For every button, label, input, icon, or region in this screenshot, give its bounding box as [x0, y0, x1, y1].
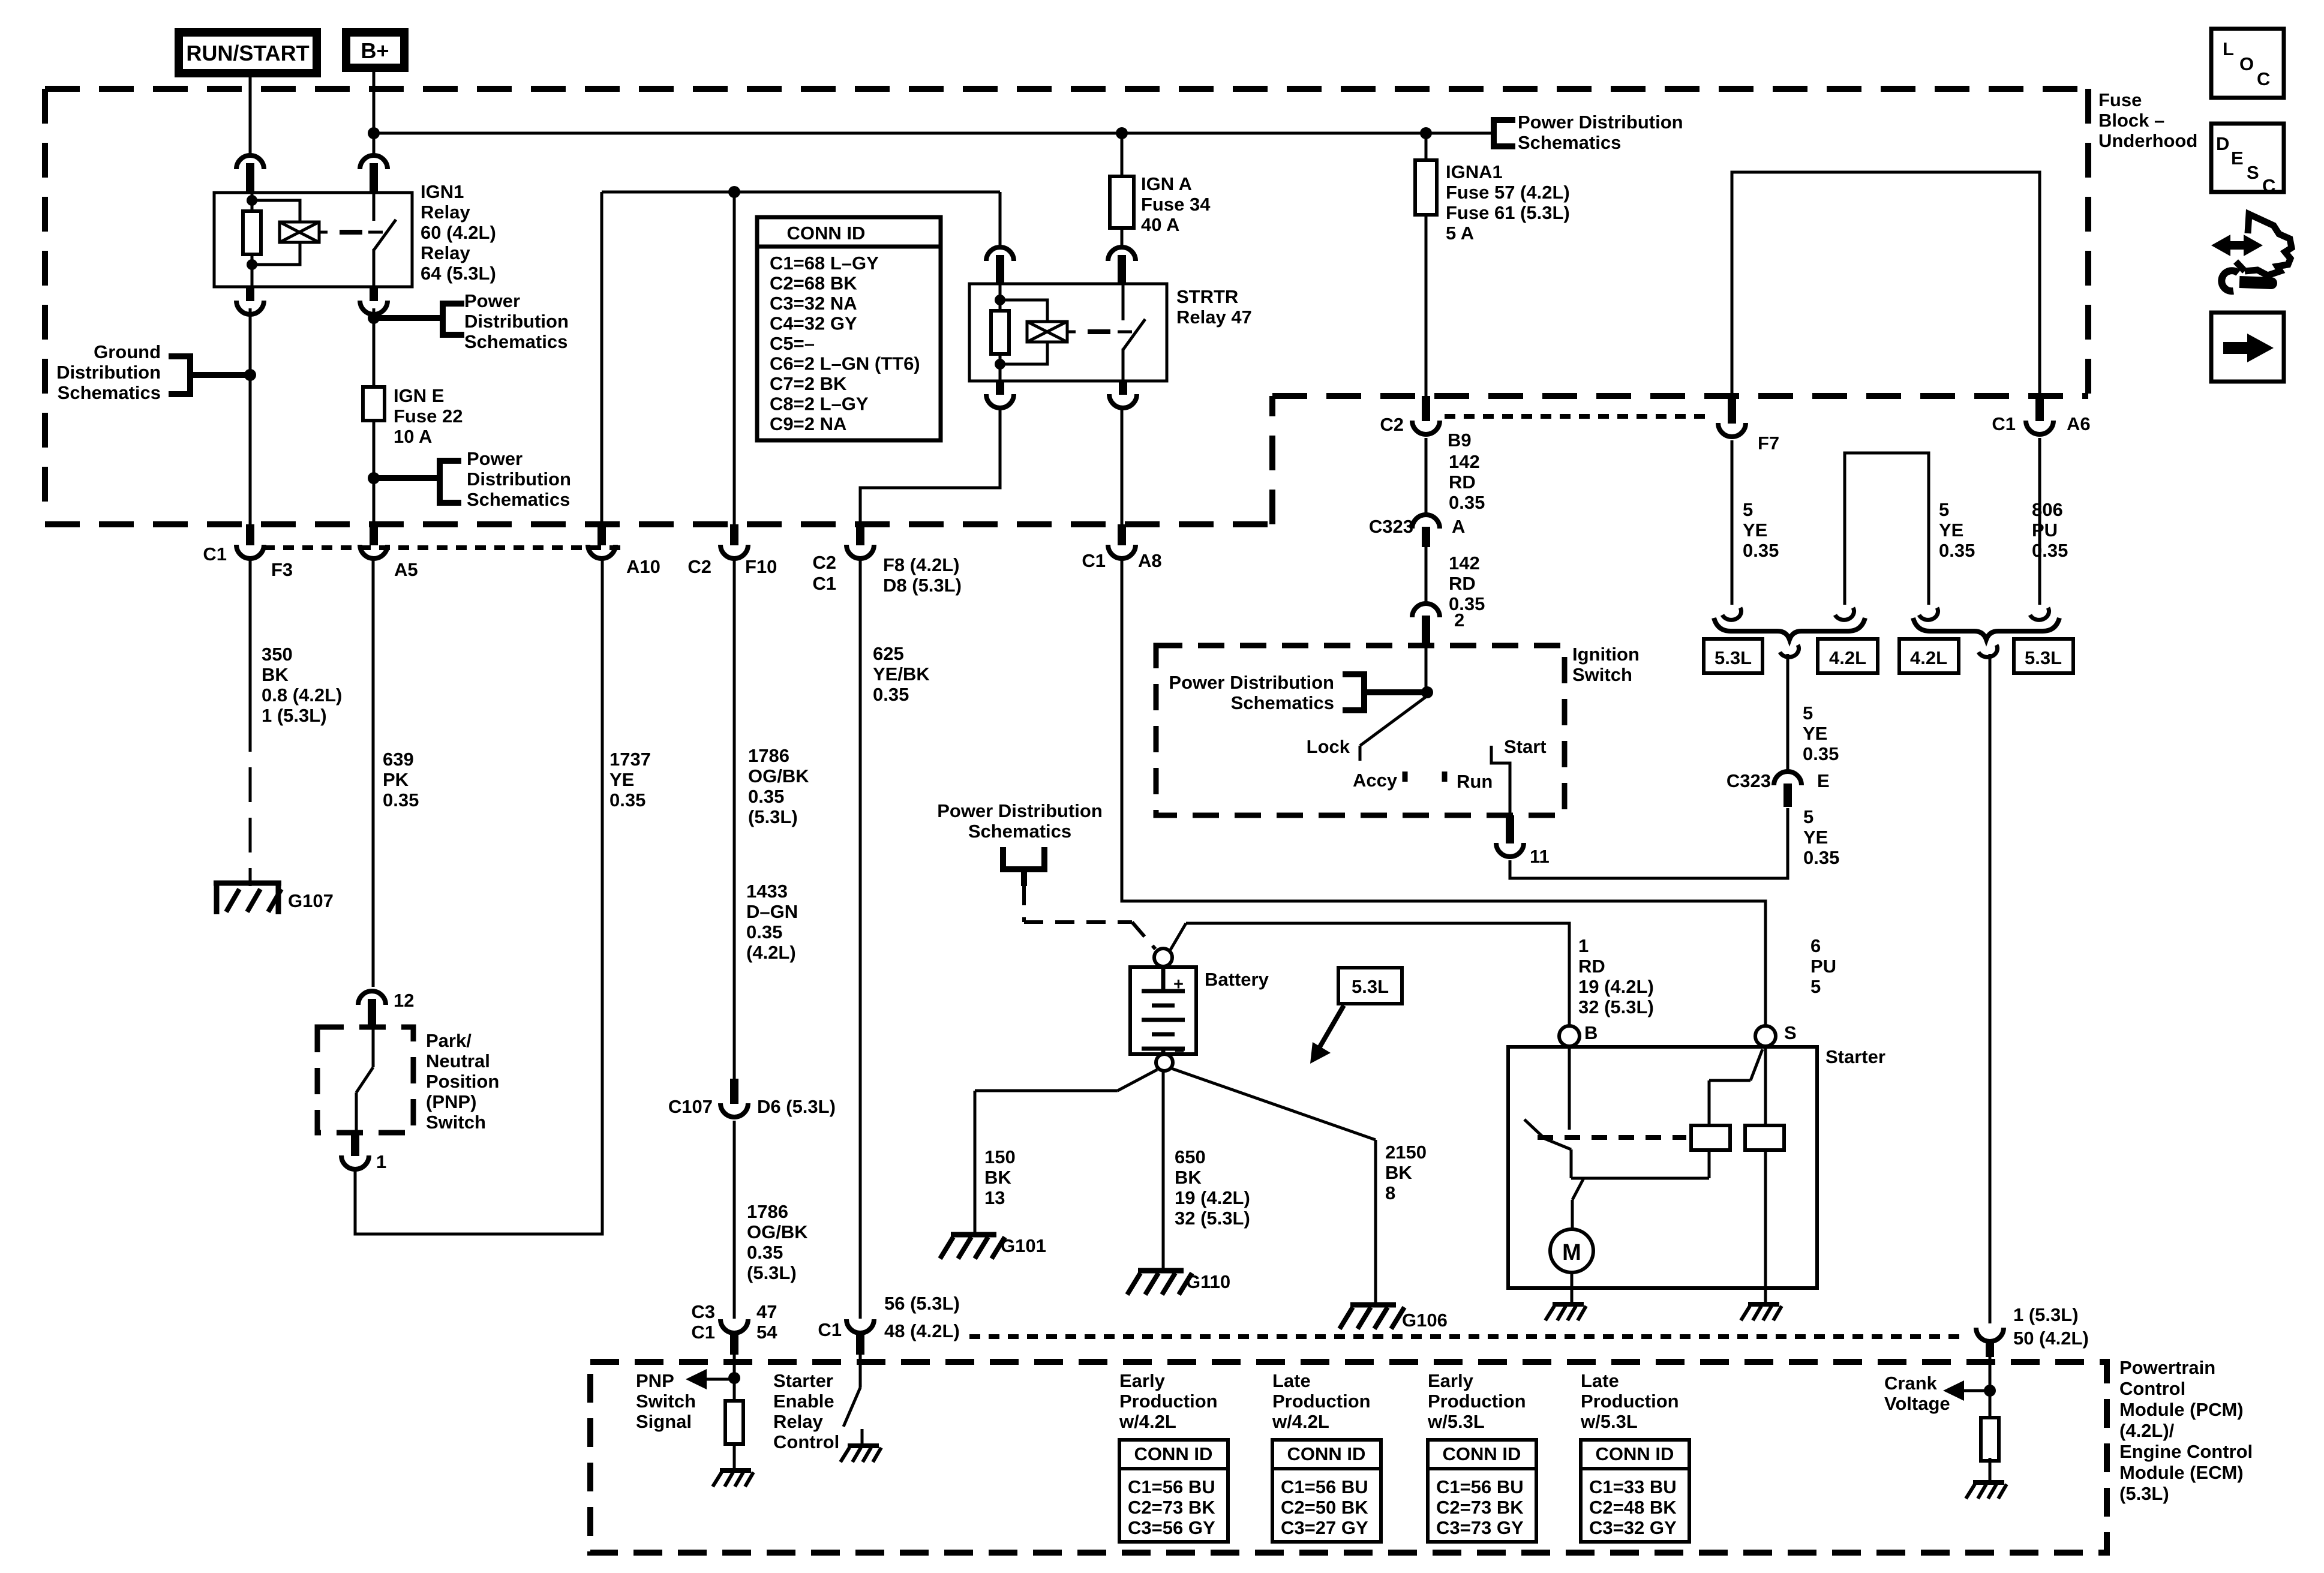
svg-text:A8: A8	[1138, 550, 1162, 571]
svg-text:Power: Power	[464, 290, 520, 311]
svg-text:B+: B+	[361, 38, 389, 63]
CONN ID table late production 4.2L	[1272, 1370, 1381, 1542]
svg-text:0.35: 0.35	[873, 684, 909, 705]
svg-text:G107: G107	[288, 890, 334, 911]
svg-text:PNP: PNP	[636, 1370, 674, 1391]
wire S to hold-in winding	[1764, 1046, 1767, 1125]
svg-text:YE/BK: YE/BK	[873, 664, 930, 685]
svg-text:Fuse: Fuse	[2098, 89, 2142, 110]
svg-text:C2=73 BK: C2=73 BK	[1436, 1497, 1524, 1518]
svg-text:Production: Production	[1581, 1391, 1679, 1412]
connector C1 56/48	[818, 1293, 959, 1355]
svg-text:Power Distribution: Power Distribution	[937, 800, 1103, 821]
ignition switch start contact	[1491, 736, 1547, 815]
wire hold-in winding to ground	[1764, 1150, 1767, 1303]
hook at crank brace (right)	[1978, 645, 1998, 657]
svg-text:C1: C1	[818, 1319, 842, 1340]
wire B into contact	[1568, 1046, 1571, 1130]
fuse IGNA1 label	[1446, 161, 1570, 244]
svg-text:Relay: Relay	[421, 202, 470, 223]
svg-text:C1: C1	[1992, 413, 2016, 434]
svg-text:10 A: 10 A	[394, 426, 432, 447]
node A5 wire at power reference	[368, 312, 380, 324]
svg-text:F8 (4.2L): F8 (4.2L)	[883, 554, 959, 575]
svg-text:C3=56 GY: C3=56 GY	[1128, 1517, 1215, 1538]
svg-text:Early: Early	[1119, 1370, 1166, 1391]
svg-text:F3: F3	[271, 559, 293, 580]
svg-text:Module (ECM): Module (ECM)	[2119, 1462, 2244, 1483]
wire S to pull-in winding	[1709, 1049, 1762, 1125]
starter motor M	[1550, 1229, 1593, 1272]
svg-text:19 (4.2L): 19 (4.2L)	[1175, 1187, 1250, 1208]
svg-text:0.35: 0.35	[383, 789, 419, 810]
svg-text:Enable: Enable	[773, 1391, 834, 1412]
PCM ECM dashed box	[590, 1362, 2107, 1553]
PCM PNP pull resistor	[725, 1401, 743, 1444]
svg-text:Schematics: Schematics	[968, 821, 1071, 842]
svg-text:D6 (5.3L): D6 (5.3L)	[757, 1096, 836, 1117]
brace right engine group	[1913, 618, 2059, 640]
connector pin out of IGN1 relay (switch)	[360, 287, 388, 314]
PNP switch label	[426, 1030, 499, 1133]
svg-text:IGN A: IGN A	[1141, 173, 1192, 194]
svg-text:50 (4.2L): 50 (4.2L)	[2013, 1328, 2089, 1349]
svg-text:Control: Control	[773, 1431, 839, 1452]
svg-text:Switch: Switch	[426, 1112, 486, 1133]
svg-text:Start: Start	[1504, 736, 1547, 757]
svg-text:C2=50 BK: C2=50 BK	[1281, 1497, 1368, 1518]
svg-text:G101: G101	[1001, 1235, 1046, 1256]
node B+ bus at IGN A fuse	[1116, 127, 1128, 139]
svg-text:YE: YE	[609, 769, 634, 790]
svg-text:0.35: 0.35	[1743, 540, 1779, 561]
svg-text:M: M	[1562, 1240, 1581, 1265]
wire 5 YE label (above C323 E)	[1803, 703, 1839, 764]
svg-text:Production: Production	[1272, 1391, 1371, 1412]
wire 5 YE label (F7)	[1743, 499, 1779, 561]
svg-text:Distribution: Distribution	[464, 311, 569, 332]
brace left engine group	[1714, 618, 1865, 640]
CONN ID table late production 5.3L	[1580, 1370, 1689, 1542]
svg-text:Power Distribution: Power Distribution	[1169, 672, 1334, 693]
svg-text:C1: C1	[203, 544, 227, 565]
wire STRTR switch out through A8 to starter S	[1121, 407, 1124, 524]
connector pin into STRTR relay (coil)	[986, 247, 1014, 284]
svg-text:Schematics: Schematics	[58, 382, 161, 403]
svg-text:CONN ID: CONN ID	[1443, 1443, 1521, 1464]
svg-text:F7: F7	[1758, 433, 1779, 454]
svg-text:Control: Control	[2119, 1378, 2185, 1399]
svg-text:YE: YE	[1803, 723, 1827, 744]
crank voltage arrow	[1884, 1373, 1990, 1414]
svg-text:1 (5.3L): 1 (5.3L)	[2013, 1304, 2079, 1325]
svg-text:PU: PU	[1810, 956, 1836, 977]
PCM connector row dots (bottom)	[969, 1334, 1963, 1339]
fuse IGN A label	[1141, 173, 1211, 235]
svg-text:w/5.3L: w/5.3L	[1580, 1411, 1638, 1432]
svg-text:Ignition: Ignition	[1572, 644, 1640, 665]
svg-text:5.3L: 5.3L	[2025, 647, 2062, 668]
svg-text:Lock: Lock	[1307, 736, 1350, 757]
svg-text:0.8 (4.2L): 0.8 (4.2L)	[262, 685, 342, 706]
svg-text:625: 625	[873, 643, 904, 664]
PCM module label	[2119, 1357, 2253, 1504]
svg-text:5.3L: 5.3L	[1352, 976, 1389, 997]
svg-text:Relay: Relay	[773, 1411, 823, 1432]
svg-text:6: 6	[1810, 935, 1821, 956]
svg-text:1 (5.3L): 1 (5.3L)	[262, 705, 327, 726]
svg-text:1433: 1433	[746, 881, 788, 902]
terminal B	[1559, 1022, 1598, 1046]
wire dashed battery feed	[1024, 886, 1155, 949]
svg-text:C2: C2	[687, 556, 711, 577]
svg-text:5: 5	[1743, 499, 1753, 520]
svg-text:w/4.2L: w/4.2L	[1119, 1411, 1176, 1432]
svg-text:Module (PCM): Module (PCM)	[2119, 1399, 2244, 1420]
ground starter solenoid	[1741, 1304, 1782, 1320]
svg-text:150: 150	[984, 1146, 1016, 1167]
svg-text:54: 54	[756, 1322, 777, 1343]
svg-text:19 (4.2L): 19 (4.2L)	[1578, 976, 1654, 997]
svg-text:C3=27 GY: C3=27 GY	[1281, 1517, 1368, 1538]
svg-text:C2=48 BK: C2=48 BK	[1589, 1497, 1677, 1518]
svg-text:Schematics: Schematics	[1518, 132, 1621, 153]
svg-text:C: C	[2257, 68, 2270, 89]
diagnostic wrench icon	[2211, 214, 2292, 291]
svg-text:Distribution: Distribution	[467, 469, 571, 490]
connector A5	[360, 524, 418, 580]
connector pin into IGN1 relay (switch)	[360, 155, 388, 193]
svg-text:1: 1	[1578, 935, 1589, 956]
svg-text:OG/BK: OG/BK	[748, 766, 809, 786]
svg-text:5: 5	[1803, 703, 1813, 724]
wire IGN1 coil out to C1 F3	[249, 308, 252, 524]
wire F8 to PCM C1	[859, 558, 862, 1319]
svg-text:12: 12	[394, 990, 414, 1011]
power distribution schematics reference (top right)	[1494, 112, 1683, 153]
wire 2150 BK label	[1385, 1142, 1427, 1203]
svg-text:C323: C323	[1727, 770, 1771, 791]
starter solenoid plunger dash link	[1538, 1135, 1686, 1140]
node ignition switch wiper	[1421, 686, 1433, 698]
engine tag 5.3L (left)	[1704, 639, 1762, 673]
wire C107 to PCM C3/C1	[733, 1121, 736, 1319]
wire PNP switch return loop	[355, 558, 602, 1234]
wire 150 BK label	[984, 1146, 1016, 1208]
connector C323 A	[1369, 515, 1466, 547]
connector 1 at PNP switch	[341, 1133, 386, 1172]
svg-text:PK: PK	[383, 769, 409, 790]
svg-text:Early: Early	[1428, 1370, 1474, 1391]
svg-text:Voltage: Voltage	[1884, 1393, 1950, 1414]
wire PNP switch signal input	[733, 1355, 736, 1401]
svg-text:Fuse 57 (4.2L): Fuse 57 (4.2L)	[1446, 182, 1570, 203]
svg-text:Accy: Accy	[1353, 770, 1398, 791]
wire 1737 YE label	[609, 749, 651, 810]
svg-text:C1: C1	[691, 1322, 715, 1343]
wire 4.2L jumper between braces	[1845, 453, 1929, 605]
engine tag 4.2L (right)	[1899, 639, 1959, 673]
svg-text:Late: Late	[1581, 1370, 1619, 1391]
connector 2 at ignition switch	[1412, 604, 1464, 646]
svg-text:1786: 1786	[747, 1201, 788, 1222]
ground G110	[1127, 1271, 1230, 1295]
svg-text:Ground: Ground	[94, 341, 161, 362]
svg-text:64 (5.3L): 64 (5.3L)	[421, 263, 496, 284]
relay IGN1 coil	[252, 200, 328, 265]
svg-text:0.35: 0.35	[1939, 540, 1975, 561]
svg-text:RUN/START: RUN/START	[186, 41, 309, 65]
svg-text:A6: A6	[2067, 413, 2091, 434]
starter moving contact	[1524, 1119, 1709, 1229]
ground starter motor	[1545, 1304, 1586, 1320]
svg-text:5: 5	[1939, 499, 1949, 520]
connector 1/50 crank voltage	[1976, 1304, 2089, 1357]
wire 5 YE label (middle)	[1939, 499, 1975, 561]
svg-text:C3=73 GY: C3=73 GY	[1436, 1517, 1524, 1538]
ignition switch accy/run contacts	[1353, 770, 1493, 792]
svg-text:5.3L: 5.3L	[1715, 647, 1752, 668]
wire crank voltage into PCM	[1989, 1357, 1992, 1421]
fuse block underhood label	[2098, 89, 2197, 151]
relay STRTR switch	[1118, 284, 1145, 381]
connector 12 at PNP switch	[358, 990, 414, 1027]
node crank voltage	[1984, 1385, 1996, 1397]
svg-text:Fuse 22: Fuse 22	[394, 406, 463, 427]
wire A10 drop from PNP bus	[600, 192, 603, 524]
wire F10 drop from PNP bus	[733, 192, 736, 524]
svg-text:0.35: 0.35	[1449, 492, 1485, 513]
svg-text:CONN ID: CONN ID	[1287, 1443, 1366, 1464]
svg-text:(4.2L): (4.2L)	[746, 942, 796, 963]
svg-text:Signal: Signal	[636, 1411, 692, 1432]
fuse IGN E label	[394, 385, 463, 447]
wire 1786 OG/BK lower label	[747, 1201, 808, 1283]
wire 1 RD label	[1578, 935, 1654, 1017]
ground G106	[1340, 1305, 1448, 1331]
ground distribution schematics reference	[56, 341, 250, 403]
wire crank voltage from 4.2L brace to PCM	[1989, 654, 1992, 1323]
LOC icon box	[2211, 29, 2284, 98]
svg-text:0.35: 0.35	[746, 921, 782, 942]
ground PCM starter enable	[840, 1446, 881, 1462]
connector C1 F3	[203, 524, 293, 580]
wire STRTR coil out to F8	[860, 407, 1000, 524]
engine tag 5.3L (battery ground callout)	[1310, 968, 1402, 1064]
svg-text:650: 650	[1175, 1146, 1206, 1167]
svg-text:806: 806	[2032, 499, 2063, 520]
svg-text:Crank: Crank	[1884, 1373, 1938, 1394]
connector pin into IGN1 relay (coil)	[236, 155, 264, 193]
battery	[1130, 948, 1269, 1071]
node PNP bus at F10	[728, 186, 740, 198]
connector C2 B9	[1380, 396, 1471, 451]
wire battery positive to starter B	[1170, 923, 1569, 1027]
wire RUN/START to IGN1 relay	[249, 77, 252, 157]
svg-text:0.35: 0.35	[747, 1242, 783, 1263]
svg-text:Distribution: Distribution	[56, 362, 161, 383]
svg-text:C4=32 GY: C4=32 GY	[770, 313, 857, 334]
svg-text:Switch: Switch	[1572, 664, 1632, 685]
svg-text:RD: RD	[1449, 573, 1476, 594]
svg-text:40 A: 40 A	[1141, 214, 1179, 235]
svg-text:Starter: Starter	[773, 1370, 833, 1391]
svg-text:47: 47	[756, 1301, 777, 1322]
svg-text:1786: 1786	[748, 745, 789, 766]
wire C323 A to ignition switch 2	[1425, 547, 1428, 606]
connector pin out of IGN1 relay (coil)	[236, 287, 264, 314]
PNP switch dashed box	[317, 1027, 413, 1133]
wire 1786 OG/BK upper label	[748, 745, 809, 827]
svg-text:S: S	[1784, 1022, 1797, 1043]
connector C107 D6	[668, 1079, 836, 1117]
svg-text:C2=73 BK: C2=73 BK	[1128, 1497, 1215, 1518]
relay STRTR box	[969, 284, 1167, 381]
power distribution schematics reference (battery feed)	[937, 800, 1103, 886]
svg-text:60 (4.2L): 60 (4.2L)	[421, 222, 496, 243]
fuse block underhood dashed box	[45, 89, 2088, 524]
svg-text:(5.3L): (5.3L)	[2119, 1483, 2169, 1504]
svg-text:Run: Run	[1457, 771, 1493, 792]
svg-text:D: D	[2216, 133, 2229, 154]
wire motor to ground	[1571, 1272, 1574, 1303]
svg-text:G110: G110	[1186, 1271, 1230, 1292]
svg-text:5: 5	[1803, 806, 1813, 827]
svg-text:D–GN: D–GN	[746, 901, 798, 922]
connector C1 A6	[1992, 393, 2090, 434]
svg-text:E: E	[2231, 148, 2244, 169]
svg-text:Schematics: Schematics	[1231, 692, 1334, 713]
svg-text:C1=56 BU: C1=56 BU	[1436, 1476, 1524, 1497]
svg-text:Relay 47: Relay 47	[1176, 307, 1252, 328]
svg-text:32 (5.3L): 32 (5.3L)	[1578, 996, 1654, 1017]
svg-text:1: 1	[376, 1151, 386, 1172]
wire F10 to C107	[733, 558, 736, 1079]
terminal S	[1755, 1022, 1797, 1046]
starter hold-in winding	[1745, 1125, 1784, 1150]
ground PCM crank	[1966, 1482, 2007, 1499]
DESC icon box	[2211, 124, 2284, 196]
svg-text:L: L	[2223, 38, 2234, 59]
wire ignition feed to lock wiper	[1425, 646, 1428, 696]
svg-text:C3: C3	[691, 1301, 715, 1322]
svg-text:E: E	[1817, 770, 1830, 791]
svg-text:A5: A5	[394, 559, 418, 580]
svg-text:C5=–: C5=–	[770, 333, 815, 354]
svg-text:IGNA1: IGNA1	[1446, 161, 1503, 182]
wire A8 down to S terminal run	[1122, 558, 1765, 1027]
svg-text:C323: C323	[1369, 516, 1413, 537]
svg-text:11: 11	[1530, 846, 1550, 867]
svg-text:B: B	[1584, 1022, 1598, 1043]
svg-text:+: +	[1173, 975, 1184, 994]
svg-text:G106: G106	[1402, 1310, 1448, 1331]
wire 639 PK to PNP switch	[372, 558, 375, 987]
fuse IGN E	[363, 387, 385, 421]
svg-text:S: S	[2247, 162, 2259, 183]
wire 625 YE/BK label	[873, 643, 930, 705]
svg-text:Starter: Starter	[1825, 1046, 1885, 1067]
svg-text:4.2L: 4.2L	[1829, 647, 1866, 668]
wire 142 RD lower label	[1449, 553, 1485, 614]
node PNP switch signal	[728, 1372, 740, 1384]
wire 350 BK to G107	[249, 558, 252, 886]
wire IGN1 switch out to IGN E fuse	[373, 308, 376, 524]
wire battery negative branches	[975, 1068, 1376, 1304]
svg-text:32 (5.3L): 32 (5.3L)	[1175, 1208, 1250, 1229]
hook middle-left wire end	[1835, 608, 1854, 620]
svg-text:0.35: 0.35	[1803, 743, 1839, 764]
ground G107	[214, 883, 334, 914]
svg-text:C2=68 BK: C2=68 BK	[770, 273, 857, 294]
engine tag 5.3L (right)	[2014, 639, 2073, 673]
RUN/START power tag	[179, 32, 317, 73]
connector 11 below ignition switch	[1496, 815, 1550, 867]
relay IGN1 actuator dash	[340, 230, 362, 235]
svg-text:C: C	[2262, 175, 2275, 196]
wire F7 down to brace	[1731, 440, 1734, 605]
svg-text:A10: A10	[626, 556, 660, 577]
svg-text:8: 8	[1385, 1182, 1395, 1203]
starter pull-in winding	[1691, 1125, 1730, 1150]
svg-text:5 A: 5 A	[1446, 223, 1474, 244]
svg-text:C3=32 NA: C3=32 NA	[770, 293, 857, 314]
wire B+ to IGN1 relay	[373, 72, 376, 157]
svg-text:1737: 1737	[609, 749, 651, 770]
wire B+ bus horizontal	[374, 132, 1491, 135]
svg-text:CONN ID: CONN ID	[1596, 1443, 1674, 1464]
node B+ bus at IGNA1 fuse	[1420, 127, 1432, 139]
svg-text:0.35: 0.35	[609, 789, 645, 810]
svg-text:Neutral: Neutral	[426, 1050, 490, 1071]
relay IGN1 switch	[368, 193, 396, 287]
connector pin into STRTR relay (switch)	[1108, 247, 1136, 284]
svg-text:C6=2 L–GN (TT6): C6=2 L–GN (TT6)	[770, 353, 920, 374]
relay STRTR label	[1176, 286, 1252, 328]
ground PCM PNP	[713, 1470, 753, 1487]
fuse block connector row dots (right)	[1445, 414, 1711, 419]
hook middle-right wire end	[1919, 608, 1938, 620]
svg-text:YE: YE	[1939, 520, 1963, 541]
connector C323 E	[1727, 770, 1830, 807]
svg-text:C1: C1	[1082, 550, 1106, 571]
svg-text:Switch: Switch	[636, 1391, 696, 1412]
svg-text:OG/BK: OG/BK	[747, 1221, 808, 1242]
svg-text:IGN E: IGN E	[394, 385, 444, 406]
relay STRTR actuator dash	[1088, 329, 1110, 334]
svg-text:56 (5.3L): 56 (5.3L)	[884, 1293, 960, 1314]
svg-text:Power Distribution: Power Distribution	[1518, 112, 1683, 133]
wire PNP bus to STRTR relay coil	[602, 192, 1000, 246]
wire 806 PU label	[2032, 499, 2068, 561]
svg-text:639: 639	[383, 749, 414, 770]
node A5 wire below IGN E	[368, 472, 380, 484]
svg-text:350: 350	[262, 644, 293, 665]
svg-text:C2: C2	[1380, 414, 1404, 435]
wire F7 to A6 jumper inside fuse block	[1732, 172, 2040, 420]
svg-text:(PNP): (PNP)	[426, 1091, 476, 1112]
svg-text:B9: B9	[1448, 430, 1472, 451]
svg-text:BK: BK	[984, 1167, 1011, 1188]
svg-text:YE: YE	[1743, 520, 1767, 541]
ignition switch dashed box	[1156, 646, 1565, 815]
svg-text:142: 142	[1449, 451, 1480, 472]
svg-text:F10: F10	[745, 556, 777, 577]
svg-text:C1=33 BU: C1=33 BU	[1589, 1476, 1677, 1497]
wire 142 RD upper label	[1449, 451, 1485, 513]
svg-text:w/4.2L: w/4.2L	[1272, 1411, 1329, 1432]
svg-text:Relay: Relay	[421, 242, 470, 263]
